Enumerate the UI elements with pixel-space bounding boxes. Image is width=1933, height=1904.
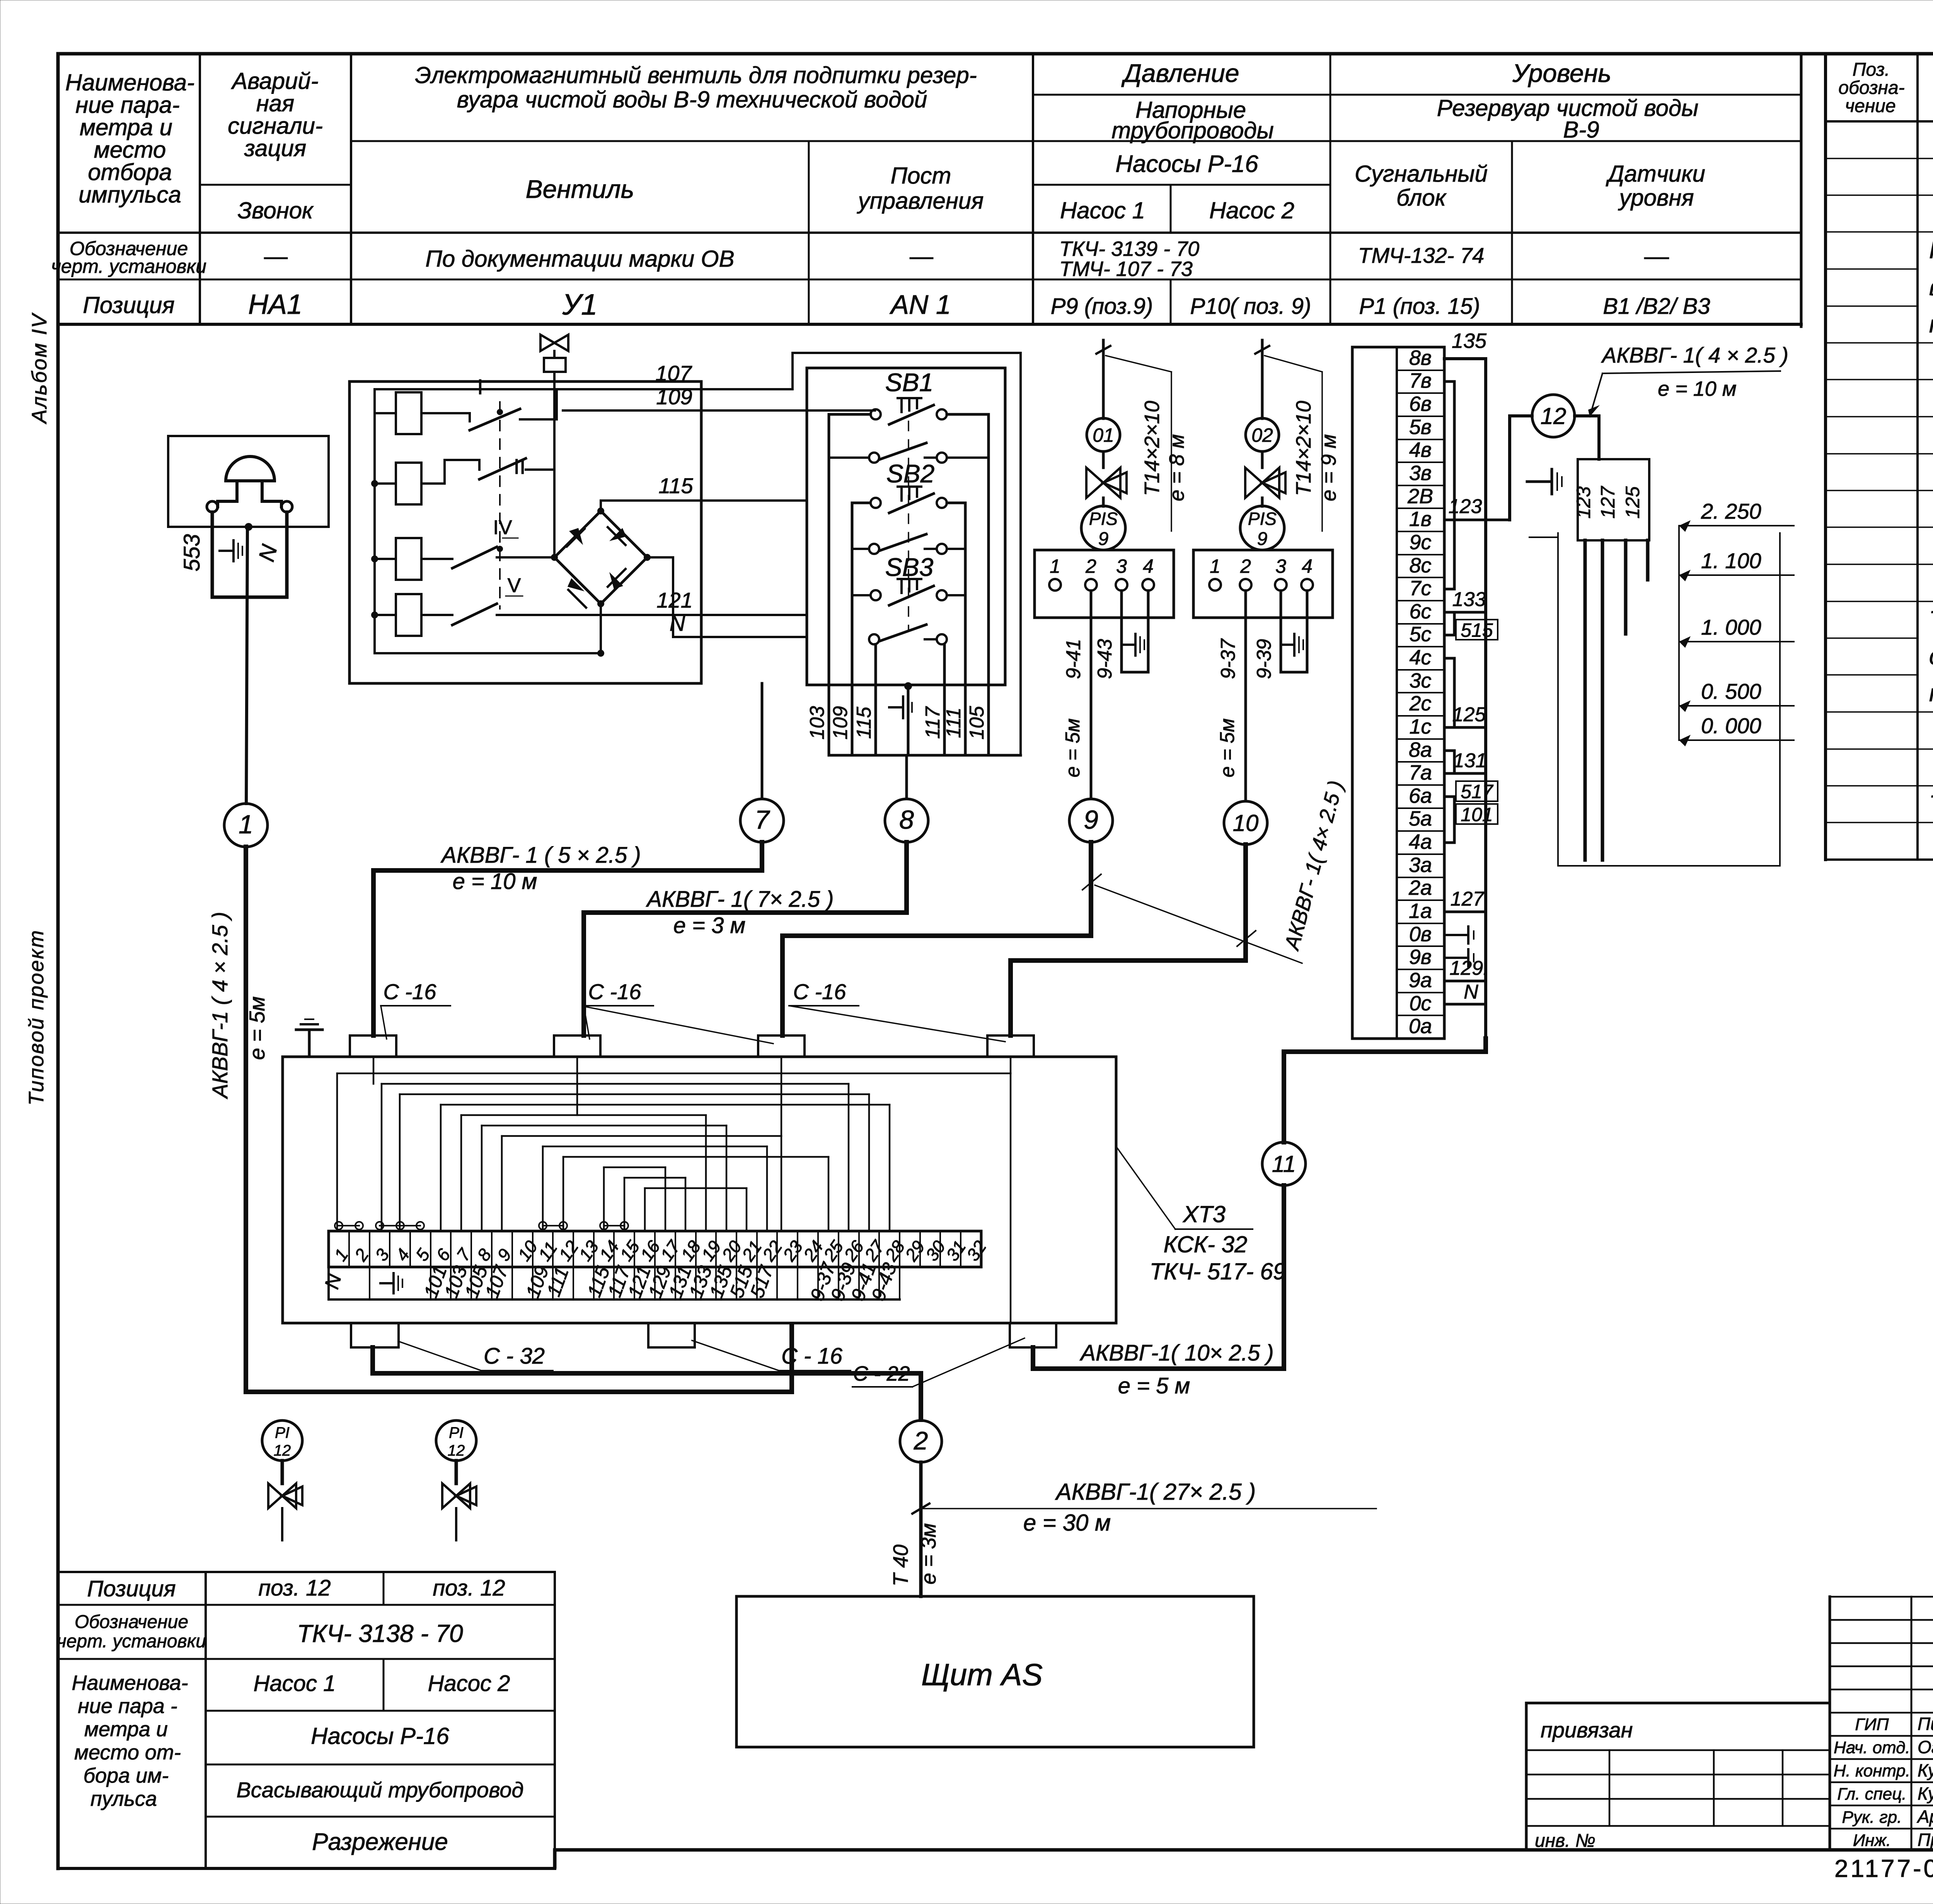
svg-text:блок: блок	[1396, 185, 1447, 211]
U1 bottom return line	[375, 652, 601, 654]
svg-text:N: N	[670, 611, 685, 635]
group bus 6с-5с	[1444, 612, 1454, 635]
level mark 2. 250	[1679, 499, 1794, 532]
SB internal bus right 3	[943, 644, 946, 685]
svg-text:место: место	[94, 137, 166, 163]
wire 107 out	[793, 353, 1021, 753]
cable 2 down to panel AS	[919, 1462, 923, 1596]
svg-text:Насос 1: Насос 1	[254, 1671, 336, 1696]
bottom tab C-16	[648, 1323, 695, 1347]
title block: narrow signature table	[1830, 1597, 1933, 1850]
SB1 NO contact	[869, 443, 947, 463]
cable 9 run	[782, 842, 1091, 1035]
group bus 5а-4а	[1444, 797, 1454, 843]
impulse tube leader 02	[1265, 356, 1322, 372]
svg-text:е = 5 м: е = 5 м	[1118, 1373, 1190, 1398]
wire to circle 8	[905, 755, 908, 799]
polarity mark 9в	[1446, 949, 1474, 966]
svg-text:3: 3	[1116, 555, 1127, 577]
svg-text:SB1: SB1	[885, 368, 934, 397]
привязан box	[1526, 1703, 1830, 1850]
svg-text:115: 115	[853, 706, 875, 739]
svg-text:НА1: НА1	[248, 289, 302, 320]
device circle 01	[1087, 418, 1120, 451]
right bus	[1484, 359, 1487, 1052]
svg-text:ХТ3: ХТ3	[1182, 1201, 1226, 1227]
svg-text:8а: 8а	[1409, 738, 1432, 761]
svg-text:IV: IV	[493, 516, 512, 539]
dash in Пост column	[910, 257, 932, 259]
svg-text:9-41: 9-41	[1062, 639, 1085, 679]
svg-text:PI: PI	[275, 1424, 290, 1441]
valve stem into box	[553, 372, 556, 557]
relay coil K2	[396, 463, 421, 504]
svg-text:SB3: SB3	[885, 553, 934, 581]
header: Резервуар чистой воды В-9	[1437, 95, 1699, 143]
group bus 7в-7с	[1444, 381, 1454, 589]
impulse line tick 01	[1096, 346, 1110, 354]
svg-text:Наименова-: Наименова-	[72, 1671, 188, 1695]
svg-text:Н. контр.: Н. контр.	[1834, 1761, 1911, 1780]
svg-text:АКВВГ- 1( 4× 2.5 ): АКВВГ- 1( 4× 2.5 )	[1280, 778, 1348, 953]
ground symbol at box top left	[296, 1019, 322, 1057]
svg-text:0. 500: 0. 500	[1701, 679, 1761, 703]
svg-text:Наименова-: Наименова-	[65, 70, 194, 95]
bridge bottom corner to return	[600, 604, 602, 653]
terminal 3 of 01	[1116, 555, 1127, 591]
bell HA1 enclosure box	[168, 436, 329, 527]
wire from terminal 4 (ground)	[1147, 591, 1150, 672]
svg-text:115: 115	[658, 473, 693, 498]
relay coil K3	[396, 538, 421, 580]
svg-text:N: N	[1464, 981, 1478, 1003]
cable 11 from C-22 tab	[1033, 1185, 1284, 1369]
svg-text:2. 250: 2. 250	[1701, 499, 1761, 523]
svg-text:В1 /В2/ В3: В1 /В2/ В3	[1603, 294, 1710, 319]
pressure gauge PI 12 #2	[436, 1420, 476, 1461]
BOM header Поз. обозначение	[1838, 60, 1904, 116]
svg-text:PI: PI	[449, 1424, 464, 1441]
SB internal bus left 1	[829, 414, 871, 685]
panel Щит AS box	[736, 1596, 1254, 1747]
wire 125	[1454, 726, 1486, 729]
svg-text:ная: ная	[256, 90, 294, 116]
SB terminal drops	[829, 685, 989, 755]
SB mechanical link dashed	[908, 421, 909, 630]
node circle 2	[900, 1420, 942, 1462]
svg-text:11: 11	[1272, 1151, 1296, 1177]
wire 127	[1444, 911, 1486, 913]
svg-text:АКВВГ-1 ( 4 × 2.5 ): АКВВГ-1 ( 4 × 2.5 )	[208, 912, 232, 1099]
svg-text:10: 10	[1233, 810, 1259, 836]
dash in Аварийная column	[265, 257, 287, 259]
svg-text:Кузнецов: Кузнецов	[1918, 1760, 1933, 1780]
svg-text:1. 100: 1. 100	[1701, 548, 1761, 573]
bridge top corner to wire 115	[601, 501, 807, 511]
svg-text:0с: 0с	[1409, 992, 1431, 1015]
svg-text:111: 111	[943, 707, 965, 738]
group bus 8а-7а	[1444, 751, 1454, 773]
svg-text:С - 16: С - 16	[781, 1344, 843, 1369]
svg-text:515: 515	[1461, 619, 1493, 641]
svg-text:3а: 3а	[1409, 853, 1432, 877]
svg-text:SB2: SB2	[886, 459, 935, 488]
bottom table: Насос 1 / Насос 2	[254, 1671, 510, 1696]
SB3 NO contact	[869, 625, 947, 644]
svg-text:12: 12	[274, 1442, 291, 1459]
svg-text:32: 32	[963, 1237, 990, 1265]
svg-text:Уровень: Уровень	[1512, 59, 1611, 87]
svg-text:6с: 6с	[1409, 600, 1431, 623]
electrode rod 4	[1646, 540, 1650, 580]
wire 129	[1444, 980, 1486, 983]
svg-text:Поз.: Поз.	[1853, 60, 1890, 80]
svg-text:107: 107	[655, 361, 692, 385]
terminal 4 of 02	[1301, 555, 1313, 591]
SB2 NC contact	[871, 487, 947, 513]
svg-text:109: 109	[829, 706, 852, 740]
SB collector line	[829, 754, 1021, 757]
svg-text:С -16: С -16	[588, 979, 642, 1004]
ground symbol 02	[1283, 634, 1303, 656]
svg-text:том: том	[1929, 680, 1933, 707]
svg-text:1с: 1с	[1409, 715, 1431, 738]
cable 8 run (7x2.5)	[584, 842, 907, 1035]
contact II	[421, 454, 554, 484]
boxed label 101	[1456, 804, 1498, 825]
svg-text:2а: 2а	[1408, 876, 1432, 899]
cable 1 run (АКВВГ-1 4x2.5)	[246, 847, 792, 1392]
terminal 1 of 02	[1209, 555, 1221, 591]
relay coil K4	[396, 594, 421, 636]
svg-text:3в: 3в	[1409, 462, 1432, 485]
svg-text:уровня: уровня	[1618, 185, 1694, 211]
svg-text:Р1 (поз. 15): Р1 (поз. 15)	[1359, 294, 1480, 319]
svg-text:6а: 6а	[1409, 784, 1432, 807]
svg-text:127: 127	[1597, 485, 1619, 519]
svg-text:5а: 5а	[1409, 807, 1432, 830]
svg-text:е = 5м: е = 5м	[245, 996, 269, 1060]
bottom table: Позиция row	[87, 1575, 505, 1601]
svg-text:9: 9	[1257, 529, 1268, 549]
header: Наименование параметра и место отбора импульса	[65, 70, 194, 208]
svg-text:8: 8	[899, 805, 914, 834]
header: Напорные трубопроводы	[1111, 97, 1274, 143]
node circle 7	[740, 799, 784, 842]
relay coil K1	[396, 392, 421, 434]
svg-text:1: 1	[1050, 555, 1060, 577]
svg-text:133: 133	[1452, 588, 1486, 611]
bell HA1 dome symbol	[226, 456, 274, 481]
PI 1 stem	[281, 1461, 284, 1483]
svg-text:9с: 9с	[1409, 531, 1431, 554]
signal wire from terminal 2 (9-37)	[1244, 591, 1247, 799]
svg-text:1: 1	[1210, 555, 1220, 577]
svg-text:125: 125	[1622, 486, 1643, 519]
cable 10 run	[1011, 845, 1246, 1035]
header: Сигнальный блок	[1355, 161, 1488, 211]
svg-text:125: 125	[1452, 703, 1486, 726]
svg-text:черт. установки: черт. установки	[57, 1631, 206, 1652]
wire bell to circle 1	[246, 527, 247, 804]
svg-text:517: 517	[1461, 781, 1494, 802]
ground symbol 01	[1124, 634, 1144, 656]
svg-text:е = 5м: е = 5м	[1216, 719, 1239, 778]
SB junction dot	[904, 682, 912, 690]
svg-text:Обозначение: Обозначение	[75, 1612, 188, 1632]
svg-text:01: 01	[1093, 424, 1114, 446]
junction box XT3 KCK-32 outline	[283, 1057, 1116, 1323]
svg-text:0а: 0а	[1409, 1015, 1432, 1038]
svg-text:В-9: В-9	[1563, 117, 1599, 143]
svg-text:е = 3м: е = 3м	[917, 1523, 940, 1585]
wire 131	[1454, 772, 1486, 775]
svg-text:Сугнальный: Сугнальный	[1355, 161, 1488, 187]
svg-text:инв. №: инв. №	[1535, 1831, 1595, 1851]
label C-16 bottom with leader	[692, 1340, 851, 1371]
U1 valve control box	[349, 381, 701, 683]
svg-text:4: 4	[1302, 555, 1313, 577]
svg-text:С -16: С -16	[384, 979, 437, 1004]
wires 3-4 join	[1281, 671, 1307, 674]
reservoir left notch	[1529, 536, 1558, 538]
svg-text:АКВВГ-1( 10× 2.5 ): АКВВГ-1( 10× 2.5 )	[1079, 1340, 1273, 1366]
svg-text:Труба бесшовная: Труба бесшовная	[1929, 791, 1933, 817]
svg-text:Щит AS: Щит AS	[921, 1657, 1043, 1692]
electrode head frame	[1578, 459, 1649, 540]
svg-text:9: 9	[1084, 805, 1098, 834]
leader to cables 9/10	[1095, 885, 1302, 963]
svg-text:Насосы Р-16: Насосы Р-16	[311, 1723, 449, 1749]
header: Аварийная сигнализация / Звонок	[228, 68, 323, 223]
boxed label 517	[1456, 781, 1498, 802]
bridge junction dots	[551, 508, 651, 657]
svg-text:1в: 1в	[1409, 508, 1432, 531]
signal wire from terminal 2 (9-41)	[1090, 591, 1093, 799]
svg-text:Разрежение: Разрежение	[312, 1829, 448, 1855]
svg-text:I: I	[477, 375, 483, 399]
SB ground symbol	[889, 697, 912, 718]
svg-text:метра и: метра и	[80, 114, 172, 140]
svg-text:Электромагнитный вентиль для: Электромагнитный вентиль для подпитки ре…	[415, 62, 977, 88]
wires 3-4 join	[1122, 671, 1148, 674]
cell: ТКЧ-3139-70 ТМЧ-107-73	[1059, 237, 1199, 281]
label C-22 with leader	[852, 1338, 1024, 1387]
level mark 1. 000	[1679, 615, 1794, 648]
label C-16 #2	[584, 979, 773, 1044]
svg-text:12: 12	[448, 1442, 465, 1459]
svg-text:АКВВГ- 1 ( 5 × 2.5 ): АКВВГ- 1 ( 5 × 2.5 )	[440, 843, 641, 868]
svg-text:Р9 (поз.9): Р9 (поз.9)	[1051, 294, 1153, 319]
svg-text:АКВВГ- 1( 4 × 2.5 ): АКВВГ- 1( 4 × 2.5 )	[1601, 343, 1788, 367]
group bus 4с-1с	[1444, 658, 1454, 727]
tall terminal strip outer box	[1352, 347, 1444, 1039]
internal wiring harness	[337, 1057, 1011, 1323]
label АКВВГ-1 (4х2.5) e=10м	[1588, 343, 1788, 417]
impulse line down to device 02	[1261, 340, 1264, 419]
svg-text:1а: 1а	[1409, 899, 1432, 923]
svg-text:9а: 9а	[1409, 969, 1432, 992]
svg-text:Аварий-: Аварий-	[231, 68, 318, 94]
svg-text:Арнаутова: Арнаутова	[1916, 1807, 1933, 1827]
svg-text:135: 135	[1452, 329, 1487, 353]
PI 2 stem	[455, 1461, 458, 1483]
tube label underline	[1171, 372, 1172, 531]
valve symbol under 01	[1102, 451, 1105, 468]
bottom tab C-32	[351, 1323, 399, 1347]
svg-text:бора им-: бора им-	[84, 1764, 169, 1787]
svg-text:2: 2	[1085, 555, 1096, 577]
svg-text:123: 123	[1449, 495, 1482, 518]
svg-text:Инж.: Инж.	[1853, 1831, 1891, 1850]
bottom tab C-22	[1010, 1323, 1056, 1347]
svg-text:PIS: PIS	[1248, 509, 1277, 529]
svg-text:131: 131	[1453, 749, 1487, 772]
svg-text:PIS: PIS	[1089, 509, 1118, 529]
svg-text:0. 000: 0. 000	[1701, 714, 1761, 738]
PI 2 valve	[442, 1483, 470, 1508]
svg-text:АКВВГ-1( 27× 2.5 ): АКВВГ-1( 27× 2.5 )	[1055, 1479, 1256, 1505]
pressure switch PIS 9	[1261, 498, 1264, 506]
svg-text:3с: 3с	[1409, 669, 1431, 692]
svg-text:Т14×2×10: Т14×2×10	[1140, 401, 1164, 496]
ground symbol at electrode	[1527, 469, 1562, 494]
node circle 9	[1069, 799, 1113, 842]
SB internal bus left 2	[852, 503, 869, 685]
bell terminal right	[281, 501, 292, 512]
svg-text:2с: 2с	[1409, 692, 1431, 715]
svg-text:чение: чение	[1845, 96, 1895, 116]
svg-text:0в: 0в	[1409, 923, 1432, 946]
U1 internal top supply line 107	[375, 389, 793, 653]
node circle 11	[1262, 1142, 1306, 1185]
svg-text:отбора: отбора	[88, 159, 172, 185]
cable 11 upper run to strip	[1284, 1039, 1486, 1142]
svg-text:2: 2	[1240, 555, 1251, 577]
svg-text:Насос 1: Насос 1	[1060, 198, 1145, 223]
bottom-left table grid	[58, 1572, 555, 1868]
svg-text:Огурцов: Огурцов	[1918, 1737, 1933, 1757]
svg-text:ние пара-: ние пара-	[75, 92, 180, 118]
svg-text:105: 105	[966, 706, 988, 740]
tall strip cells	[1397, 346, 1444, 1039]
terminal box 01	[1035, 550, 1174, 618]
node circle 10	[1224, 801, 1267, 845]
svg-text:12: 12	[1541, 403, 1567, 429]
wire from terminal 3 (9-39)	[1280, 591, 1282, 672]
svg-text:Вентиль: Вентиль	[526, 175, 634, 203]
cable start tick	[912, 1504, 929, 1514]
header: Насос 1 / Насос 2	[1060, 198, 1294, 223]
terminal 2 of 02	[1240, 555, 1251, 591]
svg-text:Насос 2: Насос 2	[428, 1671, 510, 1696]
top mounting tab 4	[987, 1035, 1034, 1057]
svg-text:7с: 7с	[1409, 577, 1431, 600]
cross mark on cable 9	[1082, 874, 1101, 890]
svg-text:127: 127	[1451, 888, 1485, 910]
svg-text:7: 7	[755, 805, 770, 834]
bell stem	[218, 481, 237, 507]
top mounting tab 1	[350, 1035, 396, 1057]
svg-text:е = 10 м: е = 10 м	[1658, 377, 1737, 400]
SB1 NC contact	[871, 398, 947, 424]
svg-text:2В: 2В	[1407, 485, 1433, 508]
wire N row 0с	[1444, 1003, 1486, 1006]
svg-text:4: 4	[1143, 555, 1154, 577]
svg-text:4с: 4с	[1409, 646, 1431, 669]
SB3 NC contact	[871, 579, 947, 605]
svg-text:1. 000: 1. 000	[1701, 615, 1761, 639]
node circle 8	[885, 799, 928, 842]
bell terminal left	[207, 501, 218, 512]
svg-text:сигнали-: сигнали-	[228, 113, 323, 139]
svg-text:02: 02	[1251, 424, 1273, 446]
svg-text:Кабели контрольные с алюмин: Кабели контрольные с алюминие-	[1929, 237, 1933, 264]
label XT3	[1116, 1146, 1253, 1229]
wire 133	[1454, 611, 1486, 614]
svg-text:е = 8 м: е = 8 м	[1165, 434, 1188, 501]
electrode rod 2	[1601, 540, 1604, 860]
svg-text:9-43: 9-43	[1094, 639, 1116, 679]
wire from terminal 4 (ground)	[1306, 591, 1309, 672]
svg-text:с полностью сплющенным гра-: с полностью сплющенным гра-	[1929, 643, 1933, 670]
electrode rod 1	[1584, 540, 1587, 860]
svg-text:ТМЧ-132- 74: ТМЧ-132- 74	[1358, 243, 1485, 267]
svg-text:Т14×2×10: Т14×2×10	[1292, 401, 1315, 496]
svg-text:По документации марки ОВ: По документации марки ОВ	[425, 246, 734, 272]
svg-text:ГИП: ГИП	[1855, 1715, 1889, 1734]
cable 12 to electrodes	[1575, 416, 1599, 459]
svg-text:привязан: привязан	[1541, 1718, 1633, 1742]
row: Обозначение черт. установки	[51, 238, 206, 277]
SB internal stubs NO rows	[829, 458, 989, 595]
svg-text:II: II	[513, 454, 525, 479]
svg-text:трубопроводы: трубопроводы	[1111, 118, 1274, 143]
impulse line down to device 01	[1102, 340, 1105, 419]
svg-text:9-39: 9-39	[1253, 639, 1275, 679]
svg-text:е = 10 м: е = 10 м	[453, 869, 537, 894]
SB internal bus left 3 (NO row SB3 to bottom)	[874, 644, 877, 685]
svg-text:7в: 7в	[1409, 369, 1432, 392]
pressure gauge PI 12 #1	[262, 1420, 302, 1461]
svg-text:Р10( поз. 9): Р10( поз. 9)	[1190, 294, 1311, 319]
svg-text:е = 5м: е = 5м	[1062, 719, 1084, 778]
svg-text:5с: 5с	[1409, 623, 1431, 646]
contact IV	[421, 516, 554, 568]
coil left stubs to bus	[375, 413, 396, 615]
svg-text:6в: 6в	[1409, 392, 1432, 416]
contact I	[421, 375, 557, 430]
svg-text:поз. 12: поз. 12	[258, 1575, 331, 1601]
parameter table grid	[58, 54, 1801, 327]
svg-text:Рук. гр.: Рук. гр.	[1842, 1808, 1902, 1827]
cable C-32 to circle 2	[373, 1347, 921, 1420]
boxed label 515	[1456, 619, 1498, 641]
svg-text:метра и: метра и	[84, 1718, 168, 1741]
cable 2 label line	[921, 1508, 1376, 1509]
dash in Датчики column	[1645, 257, 1668, 259]
cross mark on cable 10	[1237, 931, 1256, 946]
svg-text:9в: 9в	[1409, 945, 1432, 969]
svg-text:КСК- 32: КСК- 32	[1164, 1231, 1248, 1257]
bridge diode marks	[567, 527, 626, 608]
bridge rectifier diamond	[554, 511, 647, 604]
bridge right corner to wire N	[647, 557, 807, 637]
header: Датчики уровня	[1606, 161, 1705, 211]
svg-text:109: 109	[656, 385, 692, 409]
svg-text:117: 117	[922, 706, 944, 739]
svg-text:101: 101	[1461, 804, 1493, 825]
